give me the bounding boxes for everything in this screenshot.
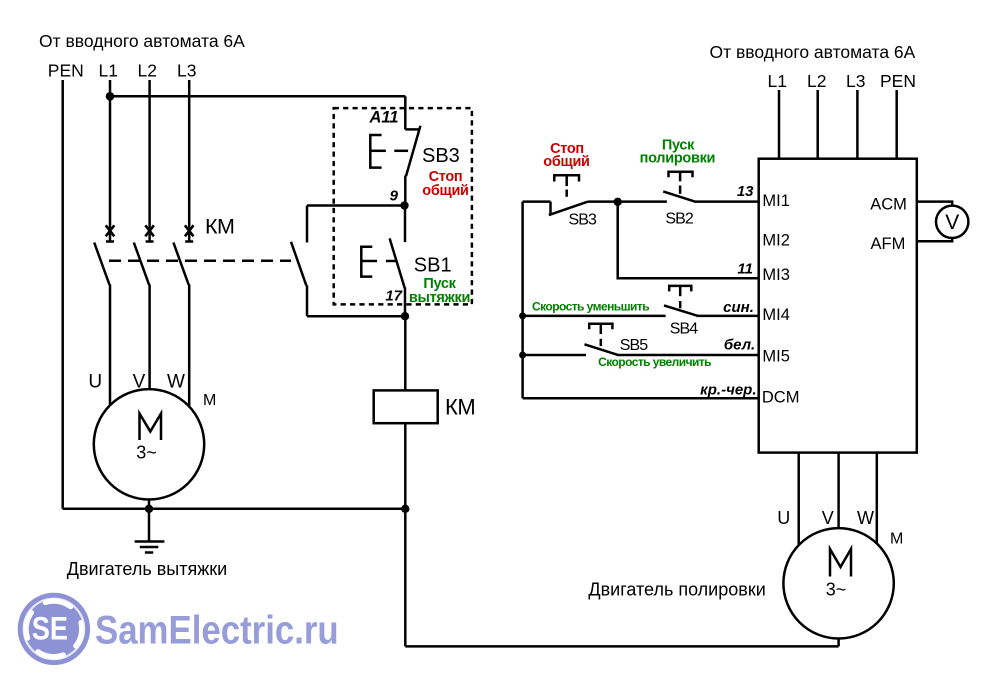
ground symbol xyxy=(135,542,165,553)
wire feed into SB3 xyxy=(404,96,407,129)
wire node17 to KM coil xyxy=(404,316,407,390)
svg-text:Скорость уменьшить: Скорость уменьшить xyxy=(532,300,649,314)
svg-text:ACM: ACM xyxy=(870,195,907,213)
wire node9 to aux contact xyxy=(307,204,405,207)
svg-text:U: U xyxy=(88,372,102,393)
motor M2 letter M xyxy=(830,549,851,577)
dashed enclosure A11 xyxy=(334,108,472,304)
svg-text:M: M xyxy=(890,531,903,548)
wire motor M1 to ground xyxy=(148,500,151,542)
svg-text:13: 13 xyxy=(737,183,754,200)
voltmeter body xyxy=(936,206,968,238)
wire V to motor M2 xyxy=(837,453,840,535)
junction node SB3-SB2 xyxy=(614,198,622,206)
button SB2 actuator xyxy=(669,172,693,194)
logo emblem disc xyxy=(18,593,90,665)
svg-text:L1: L1 xyxy=(768,71,787,91)
button SB1 NO contact xyxy=(390,206,405,317)
svg-text:W: W xyxy=(167,372,185,393)
svg-text:V: V xyxy=(133,372,146,393)
svg-text:MI5: MI5 xyxy=(762,348,790,366)
svg-text:Скорость увеличить: Скорость увеличить xyxy=(598,355,711,369)
wire PEN bus horizontal xyxy=(63,508,406,511)
svg-text:PEN: PEN xyxy=(48,61,84,81)
junction node on L1 xyxy=(106,92,115,101)
svg-text:общий: общий xyxy=(543,154,589,170)
button SB3 NC contact xyxy=(405,126,420,206)
svg-text:SB4: SB4 xyxy=(670,321,699,338)
svg-text:SB5: SB5 xyxy=(620,337,649,354)
wire L1 feed to control circuit xyxy=(110,95,405,98)
svg-text:MI4: MI4 xyxy=(762,306,790,324)
svg-text:3~: 3~ xyxy=(136,443,157,463)
svg-text:PEN: PEN xyxy=(880,71,916,91)
wire L1 vertical xyxy=(109,80,112,242)
junction node 9 xyxy=(400,201,408,209)
contactor KM auxiliary contact xyxy=(291,206,307,317)
button SB5 actuator xyxy=(589,324,612,346)
svg-text:W: W xyxy=(857,508,874,528)
svg-text:L1: L1 xyxy=(99,61,118,81)
wire ACM to voltmeter xyxy=(917,202,952,206)
wire L3 vertical xyxy=(188,80,191,242)
coil KM xyxy=(374,390,438,423)
wire L2 vertical xyxy=(148,80,151,242)
svg-text:Двигатель вытяжки: Двигатель вытяжки xyxy=(67,559,227,579)
svg-text:17: 17 xyxy=(385,288,402,305)
svg-text:M: M xyxy=(203,392,216,409)
svg-text:L2: L2 xyxy=(807,71,826,91)
svg-text:U: U xyxy=(777,508,790,528)
contactor KM main contact 2 xyxy=(134,225,154,284)
junction MI5 branch xyxy=(519,352,526,359)
wire L1 to VFD xyxy=(778,90,781,159)
wire node to MI3 xyxy=(618,202,759,278)
button SB1 actuator xyxy=(361,247,395,277)
wire to SB5 xyxy=(523,354,586,357)
svg-text:А11: А11 xyxy=(369,109,399,127)
wire aux contact to node17 xyxy=(307,315,405,318)
motor M1 letter M xyxy=(140,414,162,441)
logo emblem swirls xyxy=(26,601,82,657)
wire motor M2 bottom stub xyxy=(837,639,840,647)
wire W to motor M2 xyxy=(876,453,879,550)
wire SB3 to SB2 xyxy=(588,200,667,203)
button SB4 NO contact xyxy=(664,305,759,316)
svg-text:вытяжки: вытяжки xyxy=(409,290,470,306)
svg-text:SB2: SB2 xyxy=(665,211,694,228)
button SB2 NO contact xyxy=(663,191,759,201)
motor M2 body xyxy=(783,528,893,638)
svg-text:MI1: MI1 xyxy=(762,192,790,210)
junction node 17 xyxy=(401,312,409,320)
button SB5 NO contact xyxy=(585,344,759,355)
svg-text:9: 9 xyxy=(390,188,399,205)
contactor KM main contact 1 xyxy=(94,225,114,284)
svg-text:От вводного автомата 6А: От вводного автомата 6А xyxy=(710,42,916,62)
svg-text:SB3: SB3 xyxy=(569,212,598,229)
wire DCM row xyxy=(523,397,759,400)
wire PEN vertical xyxy=(61,80,64,509)
svg-text:Двигатель полировки: Двигатель полировки xyxy=(588,579,765,599)
svg-text:син.: син. xyxy=(723,299,754,316)
svg-text:SE: SE xyxy=(32,611,68,647)
svg-text:кр.-чер.: кр.-чер. xyxy=(700,381,756,398)
wire bottom return xyxy=(405,645,838,648)
wire motor lead 2 xyxy=(148,285,151,397)
motor M1 body xyxy=(94,389,204,499)
button SB3 right actuator xyxy=(554,175,579,197)
junction MI4 branch xyxy=(519,312,526,319)
svg-text:11: 11 xyxy=(737,260,753,277)
svg-text:SB1: SB1 xyxy=(414,255,452,277)
svg-text:V: V xyxy=(822,508,834,528)
junction PEN x KM wire xyxy=(401,505,409,513)
svg-text:MI3: MI3 xyxy=(762,266,790,284)
button SB3 actuator xyxy=(370,135,408,168)
svg-text:L2: L2 xyxy=(138,61,157,81)
svg-text:L3: L3 xyxy=(177,61,196,81)
svg-text:бел.: бел. xyxy=(724,336,755,353)
svg-text:L3: L3 xyxy=(846,71,865,91)
svg-text:КМ: КМ xyxy=(445,394,475,419)
svg-text:3~: 3~ xyxy=(826,580,847,600)
logo emblem ring xyxy=(24,599,84,659)
svg-text:SB3: SB3 xyxy=(422,145,460,167)
button SB3 right NC contact xyxy=(523,202,588,216)
VFD drive box xyxy=(759,159,917,453)
wire KM coil to bottom return xyxy=(404,424,407,646)
wire L3 to VFD xyxy=(856,90,859,159)
svg-text:DCM: DCM xyxy=(762,389,800,407)
svg-text:От вводного автомата 6А: От вводного автомата 6А xyxy=(39,31,245,51)
contactor KM main contact 3 xyxy=(173,225,193,284)
svg-text:AFM: AFM xyxy=(871,235,906,253)
button SB4 actuator xyxy=(669,286,691,308)
wire AFM to voltmeter xyxy=(917,238,952,241)
junction motor M1 neutral xyxy=(145,505,153,513)
wire to SB4 xyxy=(523,315,666,318)
svg-text:MI2: MI2 xyxy=(762,232,790,250)
wire motor lead 1 xyxy=(109,285,112,413)
wire motor lead 3 xyxy=(188,285,191,413)
svg-text:SamElectric.ru: SamElectric.ru xyxy=(95,607,339,652)
svg-text:КМ: КМ xyxy=(205,215,234,239)
svg-text:полировки: полировки xyxy=(640,151,715,167)
svg-text:V: V xyxy=(945,211,959,234)
wire L2 to VFD xyxy=(816,90,819,159)
wire U to motor M2 xyxy=(797,453,800,550)
wire PEN to VFD xyxy=(895,90,898,159)
wire control common vertical xyxy=(521,202,524,399)
svg-text:общий: общий xyxy=(422,183,468,199)
mechanical linkage dashed xyxy=(109,259,291,262)
